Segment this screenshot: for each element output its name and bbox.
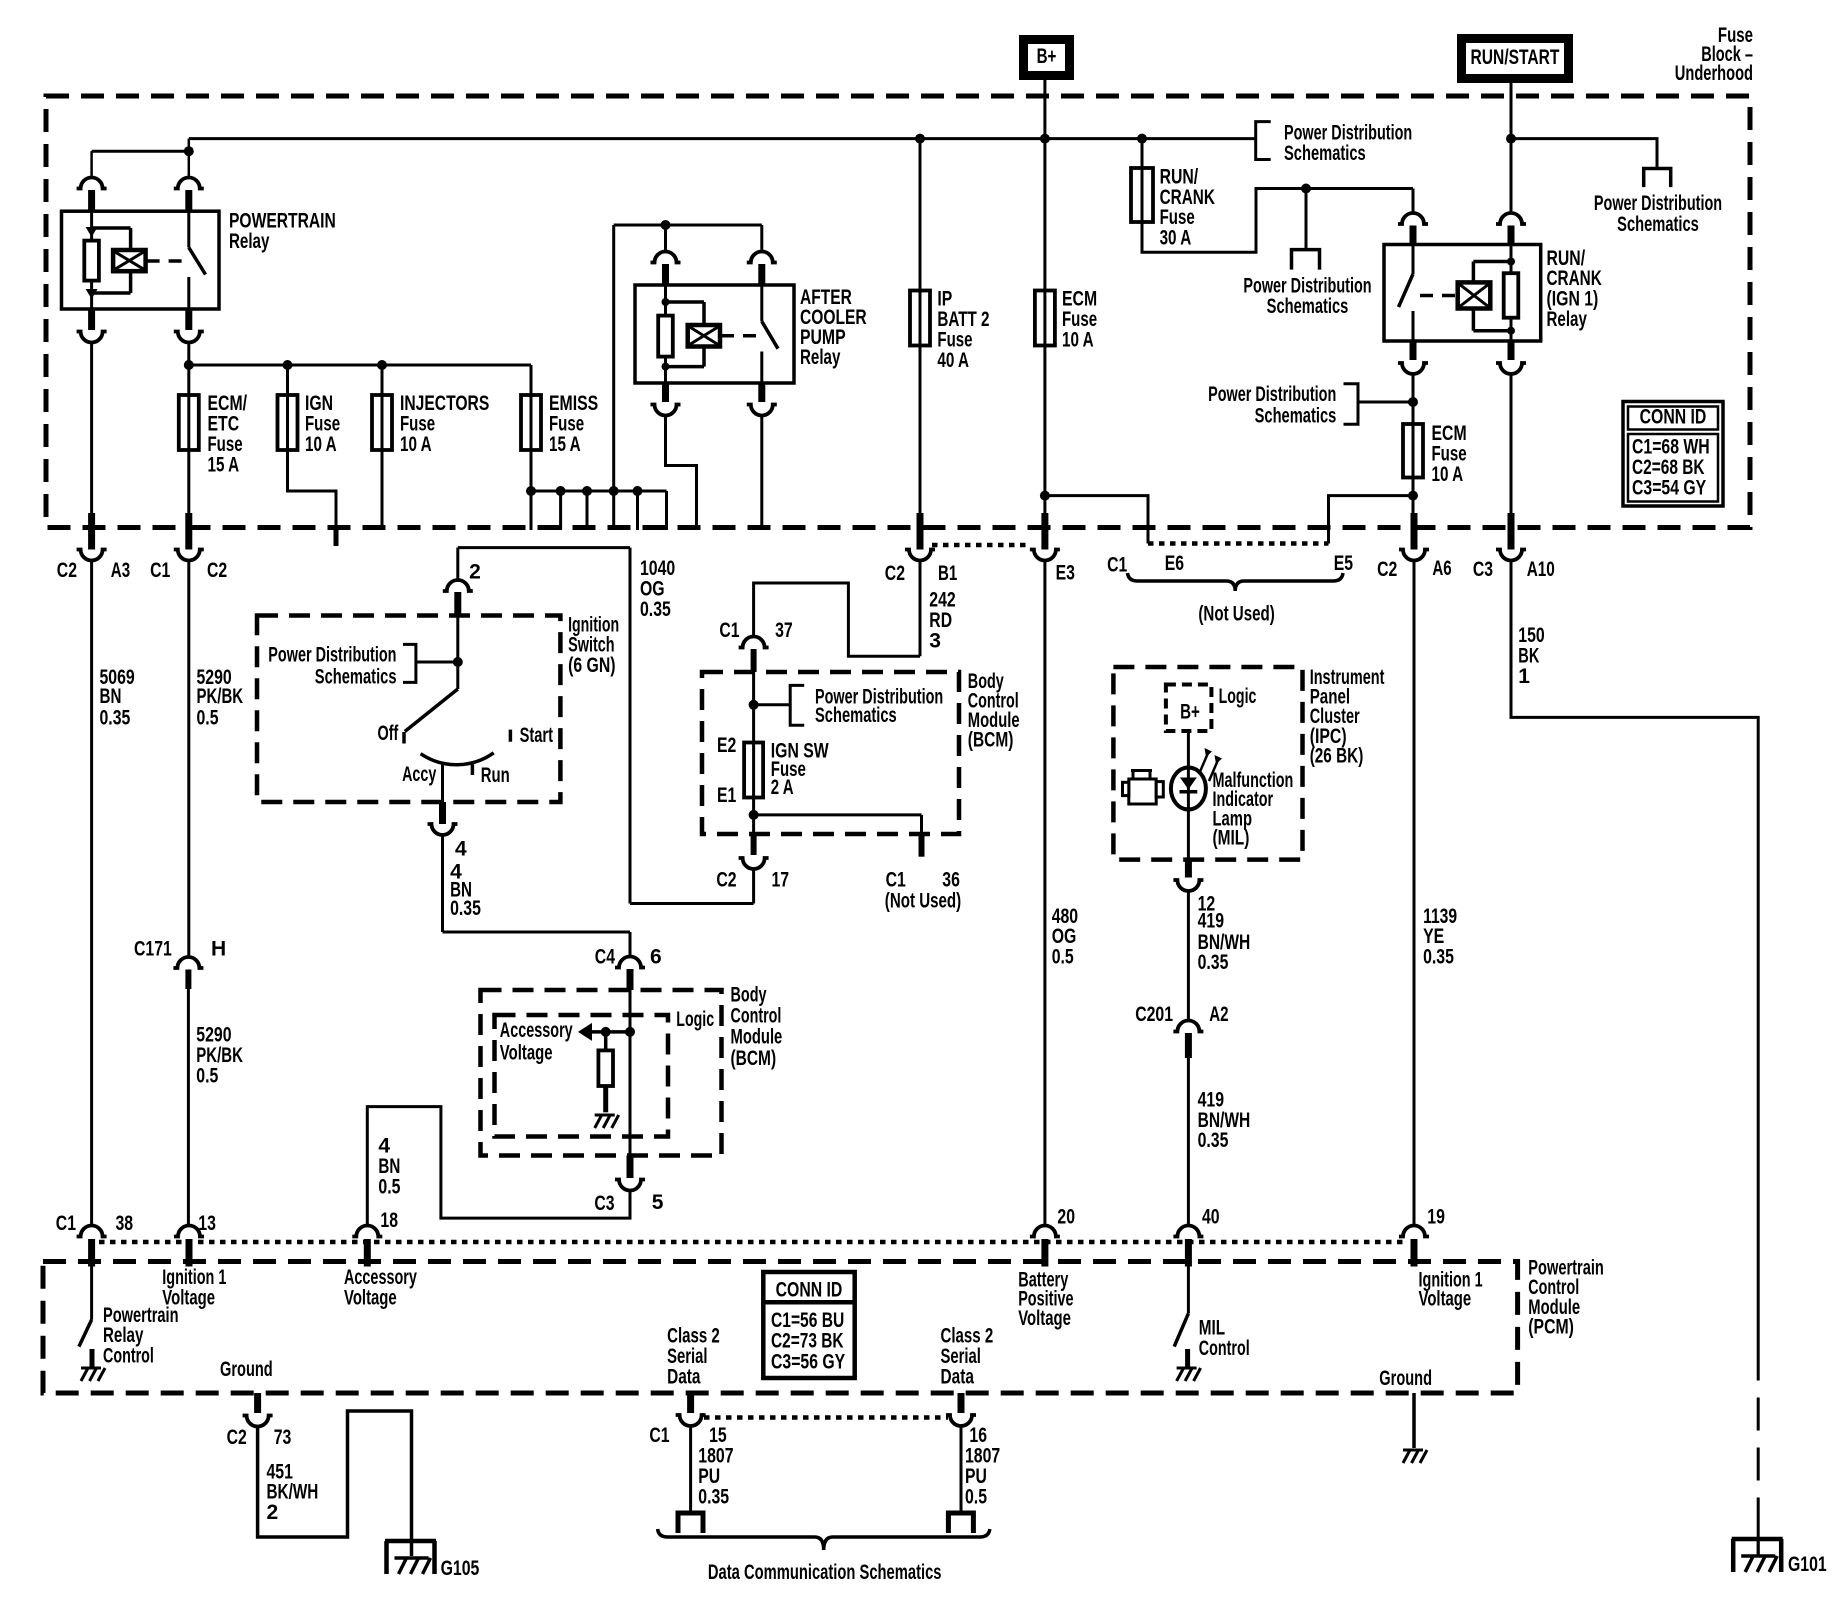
svg-text:RUN/START: RUN/START: [1471, 46, 1560, 69]
svg-text:0.35: 0.35: [450, 897, 481, 920]
svg-text:Accessory: Accessory: [500, 1019, 573, 1042]
svg-text:Underhood: Underhood: [1675, 62, 1753, 85]
svg-text:A10: A10: [1527, 558, 1555, 581]
svg-text:E3: E3: [1056, 562, 1075, 585]
svg-text:C201: C201: [1135, 1003, 1173, 1026]
svg-text:Control: Control: [731, 1004, 782, 1027]
svg-text:E6: E6: [1165, 552, 1184, 575]
svg-text:E5: E5: [1334, 552, 1354, 575]
svg-text:10 A: 10 A: [305, 433, 337, 456]
svg-text:0.35: 0.35: [698, 1485, 729, 1508]
svg-text:Logic: Logic: [1219, 685, 1257, 708]
svg-text:10 A: 10 A: [1432, 463, 1464, 486]
svg-text:0.35: 0.35: [100, 706, 131, 729]
svg-text:19: 19: [1427, 1206, 1445, 1229]
svg-text:(MIL): (MIL): [1213, 827, 1250, 850]
svg-text:6: 6: [650, 946, 662, 969]
svg-text:Off: Off: [378, 722, 399, 745]
svg-text:C1: C1: [886, 869, 906, 892]
svg-text:MIL: MIL: [1199, 1316, 1225, 1339]
svg-text:B+: B+: [1037, 45, 1057, 68]
svg-text:C1: C1: [56, 1212, 76, 1235]
svg-text:2 A: 2 A: [771, 776, 794, 799]
svg-text:Data: Data: [941, 1366, 975, 1389]
svg-text:(PCM): (PCM): [1528, 1315, 1574, 1338]
svg-text:RD: RD: [929, 609, 952, 632]
svg-text:H: H: [211, 937, 226, 960]
svg-text:(Not Used): (Not Used): [885, 890, 961, 913]
svg-text:(26 BK): (26 BK): [1310, 744, 1364, 767]
svg-text:4: 4: [455, 837, 467, 860]
svg-text:0.5: 0.5: [197, 706, 219, 729]
svg-text:A3: A3: [111, 559, 130, 582]
svg-text:Data: Data: [667, 1366, 701, 1389]
svg-text:73: 73: [274, 1426, 292, 1449]
svg-text:Accy: Accy: [402, 763, 436, 786]
svg-text:Schematics: Schematics: [1267, 295, 1349, 318]
svg-text:C1=56 BU: C1=56 BU: [771, 1309, 844, 1332]
svg-text:C2: C2: [57, 559, 77, 582]
svg-text:2: 2: [267, 1501, 279, 1524]
svg-text:15 A: 15 A: [549, 433, 581, 456]
svg-text:Schematics: Schematics: [815, 704, 897, 727]
svg-text:20: 20: [1057, 1206, 1075, 1229]
svg-text:30 A: 30 A: [1160, 227, 1192, 250]
svg-text:10 A: 10 A: [1062, 329, 1094, 352]
svg-text:(BCM): (BCM): [731, 1047, 777, 1070]
svg-text:Relay: Relay: [800, 346, 841, 369]
svg-text:C3=56 GY: C3=56 GY: [771, 1351, 845, 1374]
svg-text:36: 36: [942, 869, 960, 892]
svg-text:C1: C1: [1107, 553, 1127, 576]
svg-text:C3: C3: [1473, 558, 1493, 581]
svg-text:Voltage: Voltage: [162, 1287, 215, 1310]
svg-text:C4: C4: [595, 946, 615, 969]
svg-text:BN: BN: [100, 685, 122, 708]
svg-text:Control: Control: [103, 1345, 154, 1368]
svg-text:40: 40: [1202, 1206, 1220, 1229]
svg-text:Power Distribution: Power Distribution: [1594, 192, 1722, 215]
svg-text:Ground: Ground: [220, 1358, 273, 1381]
svg-text:Ground: Ground: [1379, 1367, 1432, 1390]
svg-text:PK/BK: PK/BK: [197, 685, 244, 708]
svg-text:Run: Run: [481, 764, 510, 787]
svg-text:0.5: 0.5: [378, 1176, 400, 1199]
svg-text:38: 38: [116, 1212, 134, 1235]
svg-text:17: 17: [772, 869, 790, 892]
svg-text:0.35: 0.35: [640, 598, 671, 621]
svg-text:Power Distribution: Power Distribution: [1208, 383, 1336, 406]
svg-text:Voltage: Voltage: [1419, 1288, 1472, 1311]
svg-text:C3: C3: [594, 1192, 614, 1215]
svg-text:Power Distribution: Power Distribution: [1243, 274, 1371, 297]
svg-text:E2: E2: [717, 734, 736, 757]
svg-text:Schematics: Schematics: [315, 666, 397, 689]
svg-text:A6: A6: [1432, 557, 1451, 580]
svg-text:C1: C1: [150, 559, 170, 582]
svg-text:G101: G101: [1788, 1553, 1827, 1576]
svg-text:Body: Body: [731, 984, 767, 1007]
svg-text:Schematics: Schematics: [1255, 405, 1337, 428]
svg-text:Schematics: Schematics: [1617, 213, 1699, 236]
svg-text:1: 1: [1518, 665, 1530, 688]
svg-text:10 A: 10 A: [400, 433, 432, 456]
svg-text:CONN ID: CONN ID: [1640, 406, 1707, 429]
svg-text:Voltage: Voltage: [500, 1042, 553, 1065]
svg-text:C2: C2: [716, 869, 736, 892]
svg-text:C1: C1: [649, 1424, 669, 1447]
svg-text:B1: B1: [938, 562, 958, 585]
svg-text:3: 3: [929, 630, 941, 653]
svg-text:B+: B+: [1180, 701, 1200, 724]
svg-text:40 A: 40 A: [937, 349, 969, 372]
svg-text:G105: G105: [441, 1557, 480, 1580]
svg-text:C2=73 BK: C2=73 BK: [771, 1330, 844, 1353]
svg-text:18: 18: [380, 1209, 398, 1232]
svg-text:0.5: 0.5: [1052, 946, 1074, 969]
svg-text:C2: C2: [227, 1426, 247, 1449]
svg-text:0.5: 0.5: [965, 1485, 987, 1508]
svg-text:E1: E1: [717, 784, 737, 807]
svg-text:Relay: Relay: [229, 230, 270, 253]
svg-text:C1: C1: [719, 619, 739, 642]
svg-text:Start: Start: [520, 724, 553, 747]
svg-text:Control: Control: [1199, 1337, 1250, 1360]
svg-text:0.35: 0.35: [1198, 951, 1229, 974]
svg-text:Power Distribution: Power Distribution: [268, 643, 396, 666]
svg-text:C2: C2: [207, 559, 227, 582]
svg-text:A2: A2: [1209, 1003, 1228, 1026]
svg-text:C3=54 GY: C3=54 GY: [1632, 477, 1706, 500]
svg-text:0.5: 0.5: [196, 1064, 218, 1087]
svg-text:Module: Module: [731, 1026, 783, 1049]
svg-text:Logic: Logic: [676, 1008, 714, 1031]
svg-text:419: 419: [1198, 910, 1224, 933]
svg-text:Relay: Relay: [1547, 308, 1588, 331]
svg-text:2: 2: [469, 560, 481, 583]
svg-text:0.35: 0.35: [1198, 1129, 1229, 1152]
svg-text:Data Communication Schematics: Data Communication Schematics: [708, 1561, 942, 1584]
svg-text:Voltage: Voltage: [344, 1287, 397, 1310]
svg-text:C171: C171: [134, 937, 172, 960]
svg-text:(Not Used): (Not Used): [1198, 602, 1274, 625]
svg-text:C2: C2: [1377, 558, 1397, 581]
svg-text:13: 13: [198, 1212, 216, 1235]
svg-text:CONN ID: CONN ID: [776, 1278, 843, 1301]
svg-text:Voltage: Voltage: [1018, 1307, 1071, 1330]
svg-text:(BCM): (BCM): [968, 729, 1014, 752]
svg-text:15 A: 15 A: [208, 454, 240, 477]
svg-text:(6 GN): (6 GN): [568, 654, 615, 677]
svg-text:Schematics: Schematics: [1284, 142, 1366, 165]
svg-text:0.35: 0.35: [1423, 946, 1454, 969]
svg-text:37: 37: [775, 619, 793, 642]
svg-text:C2: C2: [885, 562, 905, 585]
svg-text:5: 5: [652, 1191, 664, 1214]
